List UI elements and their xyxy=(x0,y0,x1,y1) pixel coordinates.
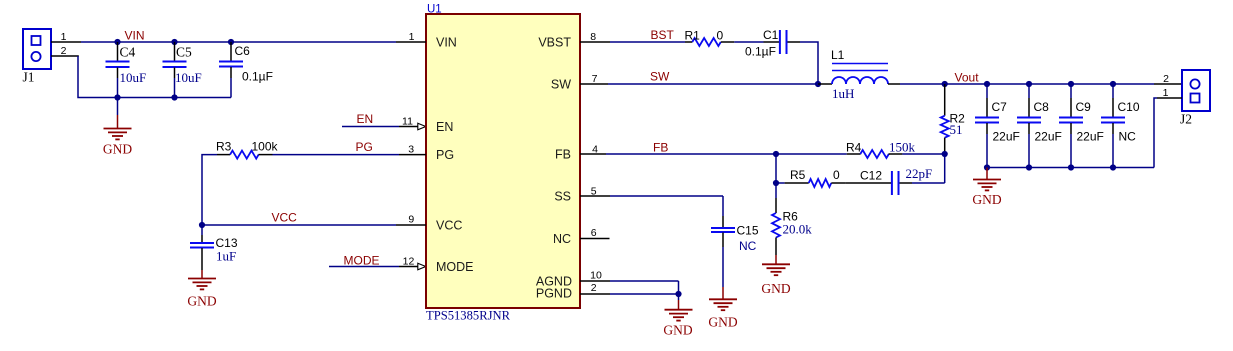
svg-text:TPS51385RJNR: TPS51385RJNR xyxy=(426,307,510,322)
junction VIN-C6 xyxy=(228,39,234,45)
J1 pin 1 xyxy=(51,31,81,43)
ground rail under C4 C5 C6 xyxy=(118,97,232,99)
wire L1 to Vout xyxy=(900,83,945,85)
svg-text:C1: C1 xyxy=(763,28,779,42)
capacitor C1 0.1uF xyxy=(745,28,800,59)
wire PGND to junction xyxy=(610,293,679,295)
junction SW-C1 xyxy=(815,81,821,87)
junction gnd-C4 xyxy=(114,94,120,100)
svg-text:SS: SS xyxy=(554,190,571,204)
U1 pin stub NC pin 6 xyxy=(580,238,610,240)
svg-text:1: 1 xyxy=(61,31,67,43)
capacitor C5 10uF xyxy=(163,42,202,98)
capacitor C12 22pF xyxy=(846,166,945,195)
J2 pin 2 number xyxy=(1163,73,1169,85)
connector J2 xyxy=(1180,70,1210,126)
net label EN xyxy=(357,112,374,126)
svg-text:150k: 150k xyxy=(889,140,916,155)
U1 pin names right xyxy=(536,36,572,301)
junction gnd-C5 xyxy=(171,94,177,100)
capacitor C4 10uF xyxy=(106,42,147,98)
capacitor C15 NC xyxy=(711,216,759,287)
svg-text:VCC: VCC xyxy=(436,219,462,233)
capacitor C8 22uF xyxy=(1017,84,1062,168)
ground GND under C13 xyxy=(187,270,216,309)
svg-text:6: 6 xyxy=(591,227,597,239)
svg-text:C12: C12 xyxy=(860,168,882,182)
svg-text:GND: GND xyxy=(761,281,790,296)
svg-text:NC: NC xyxy=(553,232,571,246)
resistor R2 51 xyxy=(941,84,965,154)
ground GND under C15 xyxy=(708,287,737,329)
junction Vout-C8 xyxy=(1026,81,1032,87)
svg-text:FB: FB xyxy=(653,140,668,154)
wire SS to C15 xyxy=(610,196,723,216)
svg-text:R4: R4 xyxy=(846,140,862,154)
svg-text:PG: PG xyxy=(436,148,454,162)
junction R5 node xyxy=(773,180,779,186)
svg-text:R3: R3 xyxy=(216,140,232,154)
wire MODE to U1 pin 12 xyxy=(329,266,418,268)
svg-text:GND: GND xyxy=(708,314,737,329)
svg-text:10uF: 10uF xyxy=(175,70,202,85)
junction VIN-C5 xyxy=(171,39,177,45)
junction Vout-C7 xyxy=(984,81,990,87)
wire R1 to C1 xyxy=(734,41,763,43)
resistor R1 0 xyxy=(685,28,735,46)
U1 pin numbers xyxy=(402,31,602,294)
svg-text:22uF: 22uF xyxy=(1035,129,1062,143)
net label MODE xyxy=(344,254,380,268)
capacitor C10 NC xyxy=(1101,84,1140,168)
svg-text:9: 9 xyxy=(408,214,414,226)
J2 pin 1 xyxy=(1157,87,1182,99)
svg-text:VIN: VIN xyxy=(436,36,457,50)
wire AGND to junction xyxy=(610,281,679,294)
junction gndrail-C7 xyxy=(984,164,990,170)
svg-text:C8: C8 xyxy=(1034,100,1050,114)
wire VCC to U1 pin 9 xyxy=(202,224,396,226)
svg-text:22uF: 22uF xyxy=(1077,129,1104,143)
net label BST xyxy=(651,28,675,42)
svg-text:J1: J1 xyxy=(23,70,35,85)
svg-text:0.1µF: 0.1µF xyxy=(745,45,776,59)
wire SW to L1 xyxy=(608,83,818,85)
svg-text:PG: PG xyxy=(356,140,373,154)
svg-text:SW: SW xyxy=(551,78,571,92)
svg-text:C15: C15 xyxy=(737,223,759,237)
U1 pin stub VBST xyxy=(580,41,610,43)
wire C1 to SW node xyxy=(800,42,818,84)
net label Vout xyxy=(955,71,980,85)
net label SW xyxy=(650,70,670,84)
svg-text:FB: FB xyxy=(555,148,571,162)
svg-text:L1: L1 xyxy=(831,48,845,62)
svg-text:22pF: 22pF xyxy=(906,166,933,181)
svg-text:1: 1 xyxy=(409,31,415,43)
svg-text:PGND: PGND xyxy=(536,286,572,300)
svg-text:GND: GND xyxy=(972,192,1001,207)
svg-text:J2: J2 xyxy=(1180,111,1192,126)
svg-text:1: 1 xyxy=(1163,87,1169,99)
U1 pin stub PGND xyxy=(580,293,610,295)
net label VIN xyxy=(125,28,145,42)
svg-text:VCC: VCC xyxy=(272,210,298,224)
svg-text:MODE: MODE xyxy=(344,254,380,268)
svg-text:C9: C9 xyxy=(1076,100,1092,114)
svg-text:12: 12 xyxy=(403,256,415,268)
wire R3 to PG pin xyxy=(273,154,400,156)
svg-text:1uF: 1uF xyxy=(216,249,236,264)
ground GND output rail xyxy=(972,168,1001,208)
svg-text:51: 51 xyxy=(950,122,963,137)
wire J1 pin2 to ground rail xyxy=(78,56,118,98)
svg-text:R1: R1 xyxy=(685,28,701,42)
svg-text:NC: NC xyxy=(1119,129,1137,143)
junction VIN-C4 xyxy=(114,39,120,45)
svg-text:0: 0 xyxy=(833,168,840,182)
svg-text:BST: BST xyxy=(651,28,675,42)
svg-text:11: 11 xyxy=(402,115,413,127)
junction Vout-C9 xyxy=(1068,81,1074,87)
svg-text:8: 8 xyxy=(590,31,596,43)
ground rail under output caps xyxy=(987,167,1154,169)
junction gndrail-C10 xyxy=(1110,164,1116,170)
svg-text:Vout: Vout xyxy=(955,71,980,85)
U1 pin stub SS xyxy=(580,195,610,197)
junction R2-R4-C12 xyxy=(942,151,948,157)
ground GND input rail xyxy=(103,98,132,157)
capacitor C6 0.1uF xyxy=(219,42,273,98)
svg-text:1uH: 1uH xyxy=(832,86,854,101)
svg-text:2: 2 xyxy=(591,282,597,294)
U1 pin stub SW xyxy=(580,83,608,85)
capacitor C13 1uF xyxy=(190,225,238,270)
resistor R5 0 xyxy=(776,168,846,187)
net label FB xyxy=(653,140,668,154)
svg-text:10uF: 10uF xyxy=(120,70,147,85)
net label VCC xyxy=(272,210,298,224)
wire FB to junction xyxy=(606,153,776,155)
U1 pin stub FB xyxy=(580,153,606,155)
junction VCC-C13 xyxy=(199,222,205,228)
svg-text:7: 7 xyxy=(592,73,598,85)
resistor R3 100k xyxy=(216,140,279,159)
junction Vout node xyxy=(942,81,948,87)
svg-text:SW: SW xyxy=(650,70,670,84)
U1 pin stub VCC xyxy=(396,224,426,226)
svg-text:C7: C7 xyxy=(992,100,1008,114)
svg-text:MODE: MODE xyxy=(436,260,474,274)
svg-text:22uF: 22uF xyxy=(993,129,1020,143)
svg-text:100k: 100k xyxy=(252,140,279,154)
svg-text:GND: GND xyxy=(187,294,216,309)
svg-text:VIN: VIN xyxy=(125,28,145,42)
ground GND under R6 xyxy=(761,255,790,296)
junction Vout-C10 xyxy=(1110,81,1116,87)
svg-text:GND: GND xyxy=(663,323,692,338)
svg-text:VBST: VBST xyxy=(538,36,571,50)
resistor R6 20.0k xyxy=(772,183,812,255)
capacitor C7 22uF xyxy=(975,84,1020,168)
svg-text:2: 2 xyxy=(1163,73,1169,85)
U1 pin names left xyxy=(436,36,474,275)
svg-text:EN: EN xyxy=(436,120,453,134)
svg-text:C6: C6 xyxy=(235,44,251,58)
U1 pin stub VIN xyxy=(396,41,426,43)
wire VIN rail from J1 to U1 pin 1 xyxy=(81,41,396,43)
capacitor C9 22uF xyxy=(1059,84,1104,168)
svg-text:20.0k: 20.0k xyxy=(783,221,813,236)
wire EN to U1 pin 11 xyxy=(342,126,418,128)
op-amp U1 TPS51385RJNR body xyxy=(426,3,580,322)
pin arrow EN xyxy=(418,123,426,130)
svg-text:0.1µF: 0.1µF xyxy=(242,70,273,84)
wire C12 up to R2 junction xyxy=(944,154,946,183)
junction AGND-PGND xyxy=(675,291,681,297)
svg-text:U1: U1 xyxy=(427,3,442,15)
pin arrow MODE xyxy=(418,263,426,270)
svg-text:NC: NC xyxy=(739,239,757,253)
junction gndrail-C9 xyxy=(1068,164,1074,170)
resistor R4 150k xyxy=(776,140,945,159)
svg-text:C4: C4 xyxy=(120,45,136,60)
wire VBST to R1 xyxy=(610,41,685,43)
junction FB node xyxy=(773,151,779,157)
svg-text:2: 2 xyxy=(61,45,67,57)
connector J1 xyxy=(23,29,52,85)
U1 pin stub AGND xyxy=(580,280,610,282)
svg-text:C5: C5 xyxy=(176,45,192,60)
svg-text:10: 10 xyxy=(590,269,602,281)
svg-text:EN: EN xyxy=(357,112,374,126)
U1 pin stub PG xyxy=(399,154,426,156)
svg-text:3: 3 xyxy=(408,143,414,155)
wire J2 pin1 to ground rail xyxy=(1154,98,1157,168)
svg-text:0: 0 xyxy=(717,28,724,42)
wire Vout rail to J2 xyxy=(945,83,1182,85)
svg-text:R5: R5 xyxy=(790,168,806,182)
inductor L1 1uH xyxy=(818,48,900,101)
wire FB junction down to R5 row xyxy=(775,154,777,183)
net label PG xyxy=(356,140,373,154)
J1 pin 2 xyxy=(51,45,79,57)
ground GND under AGND PGND xyxy=(663,294,692,338)
svg-text:C10: C10 xyxy=(1118,100,1140,114)
svg-text:GND: GND xyxy=(103,142,132,157)
junction gndrail-C8 xyxy=(1026,164,1032,170)
wire R3 left to VCC node xyxy=(202,155,217,225)
